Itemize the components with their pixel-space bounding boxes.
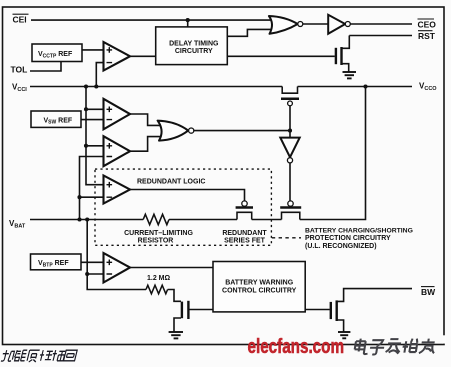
svg-text:DELAY TIMING: DELAY TIMING — [169, 41, 219, 48]
svg-text:PROTECTION CIRCUITRY: PROTECTION CIRCUITRY — [305, 235, 391, 242]
svg-text:CEI: CEI — [13, 15, 27, 25]
svg-text:VCCO: VCCO — [419, 82, 437, 93]
svg-text:SERIES FET: SERIES FET — [224, 238, 266, 245]
svg-text:TOL: TOL — [11, 65, 28, 75]
svg-text:RST: RST — [418, 31, 436, 41]
svg-text:VBAT: VBAT — [9, 219, 26, 230]
svg-text:CONTROL CIRCUITRY: CONTROL CIRCUITRY — [222, 288, 297, 295]
svg-text:elecfans.com: elecfans.com — [248, 336, 345, 358]
svg-text:CURRENT–LIMITING: CURRENT–LIMITING — [124, 230, 193, 237]
svg-text:REDUNDANT: REDUNDANT — [222, 230, 267, 237]
svg-text:REDUNDANT LOGIC: REDUNDANT LOGIC — [137, 179, 205, 186]
svg-text:BATTERY CHARGING/SHORTING: BATTERY CHARGING/SHORTING — [305, 227, 413, 234]
svg-text:(U.L. RECONGNIZED): (U.L. RECONGNIZED) — [305, 243, 377, 250]
svg-text:BATTERY WARNING: BATTERY WARNING — [225, 280, 293, 287]
svg-text:CEO: CEO — [418, 19, 437, 29]
svg-text:VCCI: VCCI — [12, 83, 27, 94]
svg-text:BW: BW — [421, 287, 436, 297]
svg-text:CIRCUITRY: CIRCUITRY — [175, 48, 213, 55]
svg-text:1.2 MΩ: 1.2 MΩ — [147, 275, 171, 282]
svg-text:RESISTOR: RESISTOR — [138, 238, 174, 245]
